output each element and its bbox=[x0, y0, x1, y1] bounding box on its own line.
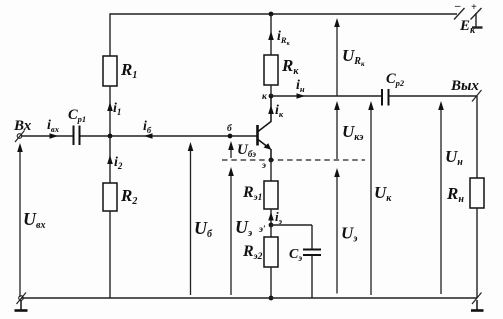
wire: node to R2 bbox=[109, 136, 111, 183]
voltage arrow U_e_prime bbox=[228, 167, 234, 295]
ground chassis bar (right) bbox=[471, 300, 484, 311]
capacitor Cp1 bbox=[74, 126, 80, 146]
capacitor Ce bbox=[303, 250, 321, 256]
terminal: output clamp bbox=[472, 90, 482, 102]
wire: Re1 to node e' bbox=[270, 209, 272, 225]
resistor Rk bbox=[264, 55, 278, 85]
node k bbox=[269, 94, 274, 99]
capacitor Cp2 bbox=[382, 89, 389, 106]
current arrow ik bbox=[268, 105, 274, 114]
transistor VT emitter stroke with arrow bbox=[258, 140, 271, 150]
dashed emitter potential line bbox=[222, 159, 365, 161]
transistor VT collector stroke bbox=[258, 96, 271, 132]
terminal: Ek negative clamp bbox=[454, 8, 465, 20]
current arrow i_Rk bbox=[268, 31, 274, 40]
wire: top supply rail bbox=[110, 13, 457, 15]
wire: Rk to node k bbox=[270, 85, 272, 96]
ground chassis bar (left) bbox=[15, 300, 28, 311]
terminal: input ground clamp bbox=[17, 293, 27, 305]
wire: Cp1 to transistor base bbox=[81, 135, 257, 137]
node: rail to Rk junction bbox=[269, 12, 274, 17]
svg-text:Вых: Вых bbox=[450, 78, 479, 94]
wire: R1 to base node bbox=[109, 86, 111, 136]
wire: Ce bottom lead bbox=[311, 255, 313, 298]
svg-text:Вх: Вх bbox=[13, 118, 32, 134]
wire: rail to Rk bbox=[270, 14, 272, 55]
resistor R1 bbox=[103, 56, 117, 86]
voltage arrow U_Rk bbox=[334, 18, 340, 96]
resistor R2 bbox=[103, 183, 117, 211]
voltage arrow U_k bbox=[368, 101, 374, 295]
node: divider junction bbox=[108, 134, 113, 139]
power source Ek chassis terminal bbox=[472, 13, 483, 28]
voltage arrow U_be bbox=[228, 141, 234, 158]
wire: Ce top lead bbox=[311, 225, 313, 249]
wire: rail corner to R1 bbox=[109, 13, 111, 56]
resistor Re1 bbox=[264, 181, 278, 209]
terminal: output ground clamp bbox=[472, 293, 482, 305]
resistor Rn bbox=[470, 178, 484, 208]
svg-text:+: + bbox=[471, 2, 477, 13]
wire: Re2 to ground rail bbox=[270, 267, 272, 298]
resistor Re2 bbox=[264, 237, 278, 267]
current arrow i_n bbox=[297, 93, 306, 98]
wire: e' to Re2 bbox=[270, 225, 272, 237]
wire: bottom ground rail bbox=[21, 297, 477, 299]
svg-text:э′: э′ bbox=[258, 225, 266, 235]
node e' bbox=[269, 223, 274, 228]
terminal: input clamp Vx bbox=[15, 131, 25, 143]
voltage arrow U_ke bbox=[334, 101, 340, 159]
current arrow i_vx bbox=[50, 133, 59, 138]
node b bbox=[228, 134, 233, 139]
voltage arrow U_n bbox=[438, 101, 444, 294]
wire: e to Re1 bbox=[270, 160, 272, 181]
node: emitter chain to rail bbox=[269, 296, 274, 301]
svg-text:–: – bbox=[454, 0, 461, 12]
svg-text:э: э bbox=[261, 161, 266, 171]
wire: Cp2 to output terminal bbox=[390, 95, 478, 97]
wire: R2 to ground rail bbox=[109, 211, 111, 298]
wire: e' branch to Ce bbox=[271, 224, 312, 226]
current arrow i2 bbox=[107, 155, 113, 164]
wire: Rn to ground rail bbox=[476, 208, 478, 298]
voltage arrow U_vx bbox=[17, 143, 23, 297]
wire: output terminal to Rn bbox=[476, 96, 478, 178]
terminal: Ek positive clamp bbox=[471, 8, 482, 20]
current arrow i1 bbox=[107, 102, 113, 111]
wire: output (k to Cp2) bbox=[271, 95, 381, 97]
current arrow i_e bbox=[268, 212, 274, 221]
current arrow i_b (pointing left) bbox=[144, 133, 153, 138]
voltage arrow U_b bbox=[188, 142, 194, 295]
voltage arrow U_e bbox=[334, 168, 340, 294]
wire: input to Cp1 bbox=[21, 135, 73, 137]
transistor VT base bar bbox=[256, 125, 259, 146]
node e bbox=[269, 158, 274, 163]
